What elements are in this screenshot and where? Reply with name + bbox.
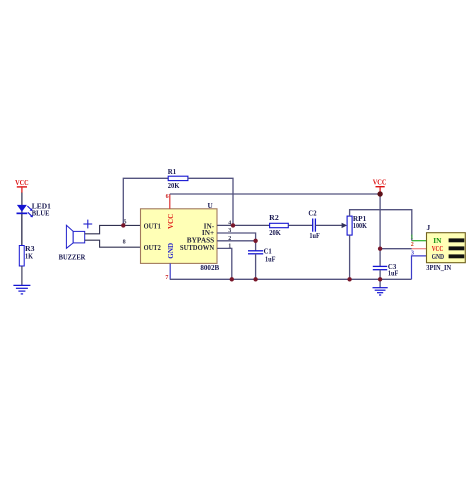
wire BYPASS node to C1: [255, 241, 257, 251]
wire C2 to RP1 wiper with arrow: [315, 224, 342, 226]
wire VCC vertical down to C3: [379, 194, 381, 266]
wire pin 4 IN- to R2: [217, 224, 270, 226]
svg-text:VCC: VCC: [166, 214, 175, 229]
wire VCC to LED1 anode: [21, 193, 23, 246]
LED LED1 BLUE: [17, 205, 33, 217]
svg-text:2: 2: [228, 236, 231, 242]
svg-text:3: 3: [411, 251, 414, 257]
junction at OUT1 / R1 left: [121, 223, 125, 227]
svg-text:1: 1: [410, 234, 413, 240]
junction C3 / ground rail: [378, 277, 382, 281]
junction VCC vertical / connector VCC wire: [378, 247, 382, 251]
resistor R1: [168, 176, 188, 180]
junction at IN- / R1 right / R2: [231, 223, 235, 227]
buzzer BUZZER: [66, 220, 92, 249]
junction BYPASS / C1: [253, 239, 257, 243]
svg-text:20K: 20K: [269, 228, 281, 237]
amplifier U 8002B body: [141, 209, 218, 264]
wire R2 to C2: [288, 224, 312, 226]
capacitor C2: [313, 219, 316, 232]
pin 7 stub (GND): [169, 263, 171, 279]
svg-text:8002B: 8002B: [200, 263, 219, 272]
junction RP1 bottom / ground rail: [347, 277, 351, 281]
svg-text:1uF: 1uF: [388, 269, 399, 278]
wire pin 1 SUTDOWN to ground rail: [217, 248, 232, 279]
svg-text:1uF: 1uF: [265, 254, 276, 263]
svg-text:2: 2: [411, 242, 414, 248]
svg-text:100K: 100K: [353, 221, 367, 230]
svg-text:8: 8: [123, 240, 126, 246]
svg-text:BUZZER: BUZZER: [59, 252, 86, 261]
svg-text:J: J: [427, 223, 431, 232]
junction VCC flag / top rail: [377, 191, 382, 196]
ground (right, below C3): [373, 288, 388, 295]
potentiometer RP1: [347, 216, 352, 235]
svg-text:R1: R1: [168, 167, 177, 176]
wire C1 bottom to ground rail: [255, 254, 257, 279]
wire R1 left leg: [123, 178, 168, 225]
wire bottom ground rail: [170, 278, 412, 280]
connector pad 1: [449, 238, 465, 242]
svg-text:1K: 1K: [25, 252, 33, 261]
wire connector pin 1 segment (green IN net): [412, 240, 427, 242]
svg-text:3: 3: [228, 228, 231, 234]
wire top VCC rail: [170, 193, 380, 195]
svg-text:1: 1: [228, 244, 231, 250]
svg-text:7: 7: [165, 275, 168, 281]
connector pad 2: [449, 246, 465, 250]
svg-text:BLUE: BLUE: [32, 209, 50, 218]
pin 6 stub (VCC): [169, 194, 171, 209]
svg-text:20K: 20K: [168, 181, 180, 190]
wire RP1 top to connector pin 1: [350, 210, 412, 241]
junction C1 / ground rail: [253, 277, 257, 281]
svg-text:VCC: VCC: [373, 178, 387, 187]
wire VCC to connector pin 2: [380, 248, 412, 250]
svg-text:SUTDOWN: SUTDOWN: [180, 243, 215, 252]
capacitor C1: [248, 251, 263, 254]
svg-text:OUT2: OUT2: [144, 243, 162, 252]
wire LED1 cathode to R3: [21, 214, 23, 246]
svg-text:3PIN_IN: 3PIN_IN: [426, 263, 452, 272]
connector J 3PIN_IN body: [427, 233, 466, 263]
wire R3 to ground: [21, 266, 23, 286]
svg-text:1uF: 1uF: [309, 231, 320, 240]
ground (left, below R3): [13, 285, 30, 294]
svg-text:VCC: VCC: [15, 178, 29, 187]
wire buzzer top to U pin 5 OUT1: [85, 225, 141, 233]
wire connector pin 2 segment (red VCC net): [412, 248, 427, 250]
wire pin 3 IN+ down to BYPASS node: [217, 233, 256, 241]
svg-text:U: U: [208, 201, 214, 210]
resistor R2: [270, 223, 289, 227]
power flag VCC (left, net VCC): [15, 178, 29, 193]
resistor R3: [19, 246, 24, 267]
wire RP1 bottom to ground rail: [349, 235, 351, 279]
wire ground rail up to connector pin 3 (GND net): [412, 256, 427, 279]
svg-text:C2: C2: [308, 209, 317, 218]
wire buzzer bottom to U pin 8 OUT2: [85, 240, 141, 247]
svg-text:6: 6: [166, 194, 169, 200]
junction SUTDOWN wire / ground rail: [230, 277, 234, 281]
wire C3 bottom to ground: [379, 270, 381, 288]
connector pad 3: [449, 254, 465, 258]
wire R1 right leg to IN-: [188, 178, 233, 225]
power flag VCC (right, net VCC): [373, 178, 387, 194]
svg-text:R2: R2: [269, 213, 279, 222]
svg-text:GND: GND: [166, 243, 175, 259]
capacitor C3: [373, 266, 387, 269]
svg-text:GND: GND: [432, 252, 444, 261]
wire pin 2 BYPASS: [217, 240, 256, 242]
svg-text:OUT1: OUT1: [144, 221, 162, 230]
